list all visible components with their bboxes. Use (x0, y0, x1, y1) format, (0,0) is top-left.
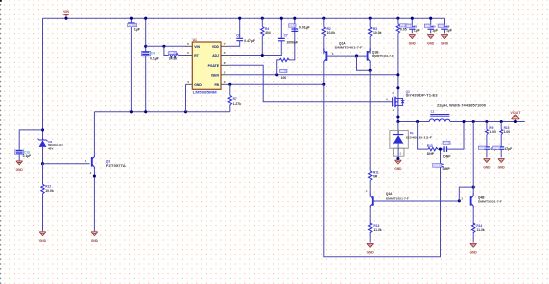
ground R12 (39, 232, 46, 236)
svg-text:GND: GND (441, 41, 449, 45)
ground C11 (484, 159, 491, 163)
node ISEN sense (396, 73, 399, 76)
node R3 rail (369, 17, 372, 20)
svg-text:10.0k: 10.0k (327, 31, 336, 35)
node R9 rail (485, 120, 488, 123)
svg-text:PGATE: PGATE (208, 64, 220, 68)
svg-text:0R: 0R (373, 174, 378, 178)
wire ADJ (229, 18, 281, 55)
svg-text:47µF: 47µF (505, 147, 513, 151)
resistor R2 (322, 27, 325, 37)
node C7 rail (280, 17, 283, 20)
node FB Q1A (322, 83, 325, 86)
svg-text:FB: FB (214, 83, 219, 87)
svg-text:VDD: VDD (212, 45, 220, 49)
svg-text:C7: C7 (284, 34, 288, 38)
svg-text:Si7439DP-T1-E3: Si7439DP-T1-E3 (406, 94, 438, 98)
transistor Q1A (325, 51, 327, 61)
wire C3 drop (411, 18, 413, 33)
wire RT bracket (164, 46, 186, 55)
wire FB (229, 83, 324, 85)
node switch drain (396, 120, 399, 123)
label C8 (438, 24, 444, 27)
ground D1 (395, 160, 402, 164)
node Q1B collector (369, 69, 372, 72)
capacitor C5 (428, 27, 434, 29)
wire gnd net (94, 111, 229, 113)
svg-text:C8: C8 (439, 24, 443, 28)
pin PGATE 8 (221, 64, 229, 66)
wire R6 bracket (277, 18, 295, 75)
svg-text:C6: C6 (236, 33, 240, 37)
svg-text:1µF: 1µF (414, 28, 420, 32)
capacitor C13 (437, 164, 443, 166)
resistor R3 (369, 27, 372, 37)
wire R10 branch (418, 122, 464, 150)
resistor R1 (396, 24, 399, 34)
label R6 (280, 69, 287, 72)
svg-text:DMMT5551-7-F: DMMT5551-7-F (386, 196, 409, 200)
svg-text:C12: C12 (493, 146, 499, 150)
wire Q1B diode tie (357, 56, 371, 70)
svg-text:GND: GND (39, 239, 47, 243)
wire R4 drop (261, 18, 263, 55)
capacitor C7 (278, 38, 285, 40)
wire R15 column (500, 122, 502, 158)
node D1 gnd (396, 157, 399, 160)
node C4 vin pin (144, 45, 147, 48)
ground C3 (409, 35, 416, 39)
wire Q1 bases (326, 55, 367, 57)
svg-text:R5: R5 (170, 51, 174, 55)
svg-text:B340LB-13-F: B340LB-13-F (406, 136, 432, 140)
wire D1 drop (397, 122, 399, 132)
svg-text:GND: GND (194, 83, 202, 87)
svg-text:1000pF: 1000pF (286, 41, 298, 45)
label C5 (424, 24, 430, 27)
wire C1 drop (130, 18, 132, 112)
capacitor C6 (236, 38, 243, 40)
node C6 rail (238, 17, 241, 20)
svg-text:DNP: DNP (443, 167, 451, 171)
ground C10 (16, 161, 23, 165)
svg-text:LM5085MM: LM5085MM (193, 90, 217, 94)
node Q2 source (396, 86, 399, 89)
svg-text:DMMT5401-7-F: DMMT5401-7-F (372, 54, 394, 58)
pin GND 4 (186, 83, 193, 85)
wire R12 drop (42, 164, 44, 232)
wire VOUT rail (450, 121, 525, 123)
resistor R13 (369, 223, 372, 233)
node C2 rail (293, 17, 296, 20)
node C4 rail (144, 17, 147, 20)
resistor R6 (279, 58, 289, 61)
screen edge artifact (0, 0, 2, 2)
svg-text:10.0k: 10.0k (373, 31, 382, 35)
wire Q3 emitter (93, 169, 95, 231)
svg-text:1.27k: 1.27k (233, 102, 242, 106)
svg-text:ADJ: ADJ (212, 54, 219, 58)
svg-text:R10: R10 (427, 144, 433, 148)
label C1 (128, 23, 137, 26)
node D2 bottom (41, 162, 44, 165)
wire PGATE (229, 65, 393, 101)
svg-text:C1: C1 (128, 23, 132, 27)
svg-text:VIN: VIN (194, 45, 200, 49)
node C1 top (130, 17, 133, 20)
resistor R11 (369, 171, 372, 181)
power port VOUT (512, 115, 520, 122)
pin ISEN 1 (221, 74, 229, 76)
wire Q3 collector (93, 112, 95, 154)
wire VIN left drop (42, 18, 44, 137)
capacitor C2 (291, 29, 298, 31)
svg-text:ISEN: ISEN (211, 73, 219, 77)
node ISEN R6 (275, 73, 278, 76)
resistor R14 (472, 223, 475, 233)
wire Q4 bases (373, 200, 460, 202)
svg-text:22µH, Width 74438571000: 22µH, Width 74438571000 (437, 103, 486, 107)
ground C12 (498, 159, 505, 163)
wire VIN pin (146, 45, 187, 47)
wire Q2 drain (397, 105, 399, 121)
node C3 rail (411, 17, 414, 20)
capacitor C9 (444, 146, 446, 152)
svg-text:R7: R7 (233, 97, 237, 101)
wire R3 drop (369, 18, 371, 54)
ground Q3 (91, 232, 98, 236)
node R1 rail (396, 17, 399, 20)
resistor R7 (228, 95, 231, 105)
node FB R7 (228, 83, 231, 86)
ground C8 (441, 35, 448, 39)
svg-text:1.00: 1.00 (489, 130, 496, 134)
capacitor C1 (128, 23, 135, 25)
pin VDD 7 (221, 45, 229, 47)
label C11 (478, 146, 486, 149)
wire R2 drop (323, 18, 325, 54)
pin FB 3 (221, 83, 229, 85)
wire Q1B collector (369, 63, 371, 70)
svg-text:FZT957TA: FZT957TA (106, 164, 127, 168)
node Q4B collector tie (472, 186, 475, 189)
svg-text:C5: C5 (425, 24, 429, 28)
svg-text:U1: U1 (193, 38, 197, 42)
pin ADJ 5 (221, 55, 229, 57)
wire ISEN (229, 74, 398, 76)
wire Q4B collector (472, 122, 474, 195)
svg-text:1µF: 1µF (432, 28, 438, 32)
wire C4 drop (145, 18, 147, 112)
node R4 adj (261, 54, 264, 57)
node gnd C1 (130, 110, 133, 113)
node R2 rail (322, 17, 325, 20)
ground R14 (470, 243, 477, 247)
pin VIN 6 (186, 45, 193, 47)
resistor R10 (428, 147, 438, 150)
resistor R5 (168, 54, 178, 57)
svg-text:11.3k: 11.3k (476, 228, 484, 232)
node RT branch (162, 45, 165, 48)
wire VDD (229, 18, 240, 46)
resistor R15 (500, 129, 503, 134)
power port VIN (63, 15, 68, 19)
svg-text:GND: GND (470, 250, 478, 254)
svg-text:C9: C9 (444, 141, 448, 145)
ground R13 (367, 243, 374, 247)
svg-text:C13: C13 (433, 164, 439, 168)
capacitor C3 (409, 27, 415, 29)
node Q1 base tie (355, 54, 358, 57)
svg-text:DNP: DNP (427, 152, 435, 156)
wire switch rail (398, 121, 429, 123)
svg-text:GND: GND (483, 166, 491, 170)
node Q2 drain pin (396, 115, 399, 118)
wire Q1A collector (323, 64, 325, 85)
svg-text:DMMT5551-7-F: DMMT5551-7-F (478, 199, 502, 203)
resistor R4 (261, 27, 264, 37)
node Q3 emitter (93, 174, 96, 177)
svg-text:34.8k: 34.8k (169, 57, 178, 61)
svg-text:DNP: DNP (443, 155, 451, 159)
node gnd U1 (184, 110, 187, 113)
label C9 (443, 141, 450, 144)
ground C5 (427, 35, 434, 39)
svg-text:0.05: 0.05 (400, 28, 407, 32)
wire R9 column (486, 122, 488, 158)
node VOUT stem (514, 120, 517, 123)
svg-text:D1: D1 (410, 131, 414, 135)
svg-text:GND: GND (409, 41, 417, 45)
label C3 (406, 24, 412, 27)
svg-text:C4: C4 (151, 52, 155, 56)
wire R1 drop (397, 18, 399, 98)
wire R7 drop (229, 84, 231, 112)
capacitor C8 (441, 27, 447, 29)
svg-text:GND: GND (498, 166, 506, 170)
resistor R12 (41, 184, 44, 194)
capacitor C10 (15, 150, 24, 154)
pin RT 2 (186, 55, 193, 57)
label C12 (493, 146, 501, 149)
svg-text:R6: R6 (280, 69, 284, 73)
wire FB loop (324, 84, 441, 256)
capacitor C12 (498, 147, 504, 149)
svg-text:0.01µF: 0.01µF (299, 25, 310, 29)
transistor Q1B (367, 51, 369, 61)
svg-text:GND: GND (427, 41, 435, 45)
wire R11 chain (369, 70, 371, 194)
svg-text:GND: GND (16, 168, 24, 172)
svg-text:1µF: 1µF (446, 28, 452, 32)
svg-text:C11: C11 (479, 146, 485, 150)
node Q4B rail (472, 120, 475, 123)
wire Q4B emitter (472, 208, 474, 242)
svg-text:11.3k: 11.3k (373, 228, 381, 232)
diode D1 selected (390, 131, 408, 149)
svg-text:GND: GND (394, 167, 402, 171)
wire VIN top rail (43, 17, 445, 19)
svg-text:GND: GND (367, 250, 375, 254)
transistor Q3 (91, 157, 93, 167)
capacitor C4 (141, 51, 150, 56)
node R4 rail (261, 17, 264, 20)
node C9 junction (439, 148, 442, 151)
wire U1 gnd drop (185, 84, 187, 112)
svg-text:0.47µF: 0.47µF (244, 39, 255, 43)
svg-text:C2: C2 (289, 24, 293, 28)
svg-text:VIN: VIN (63, 10, 69, 14)
node D2 top branch (41, 128, 44, 131)
svg-text:1µF: 1µF (134, 27, 140, 31)
svg-text:C3: C3 (407, 24, 411, 28)
svg-text:1.00: 1.00 (504, 130, 511, 134)
node Q4B base (458, 199, 461, 202)
wire Q4B diode tie (459, 187, 473, 201)
svg-text:40V: 40V (48, 146, 53, 150)
svg-text:0.1µF: 0.1µF (150, 56, 159, 60)
label R5 (169, 51, 177, 54)
svg-text:0.1µF: 0.1µF (23, 154, 32, 158)
node C9 rail (462, 120, 465, 123)
capacitor C11 (484, 147, 490, 149)
resistor R9 (485, 129, 488, 134)
wire Q4A emitter (369, 209, 371, 243)
svg-text:10.0k: 10.0k (45, 189, 54, 193)
svg-text:VOUT: VOUT (510, 111, 521, 115)
node gnd C4 (144, 110, 147, 113)
svg-text:404: 404 (265, 31, 271, 35)
svg-text:GND: GND (91, 239, 99, 243)
wire C5 drop (430, 18, 432, 33)
label C2 (289, 24, 296, 27)
node R10 tap (416, 120, 419, 123)
diode D2 zener (38, 138, 48, 142)
label R1 (400, 24, 407, 27)
wire C10 branch (19, 130, 42, 161)
transistor Q4A (372, 196, 374, 206)
wire top right corner (444, 18, 446, 33)
transistor Q4B (470, 196, 472, 206)
transistor Q2 PMOS (392, 97, 394, 106)
svg-text:DMMT5401-7-F: DMMT5401-7-F (335, 46, 363, 50)
node C5 rail (429, 17, 432, 20)
wire Q3 base (43, 163, 90, 165)
inductor L1 (429, 119, 450, 122)
node R15 rail (500, 120, 503, 123)
op-amp U1 body (192, 42, 221, 89)
node VIN stem (64, 17, 67, 20)
svg-text:L1: L1 (431, 110, 435, 114)
label C13 (433, 164, 442, 168)
svg-text:100: 100 (281, 76, 287, 80)
inductor L1 core (430, 115, 449, 117)
